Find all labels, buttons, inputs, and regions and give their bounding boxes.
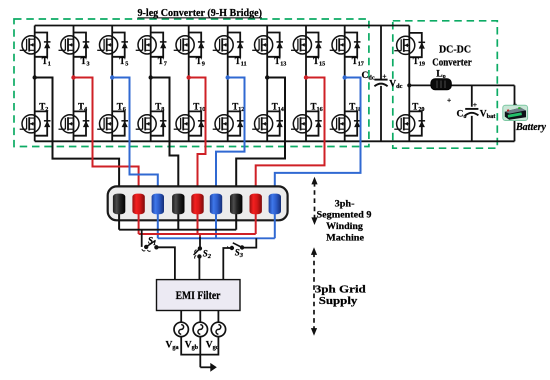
- svg-text:Vbat: Vbat: [480, 110, 496, 121]
- svg-text:S2: S2: [203, 248, 211, 260]
- wire: phase output leg 3: [112, 78, 158, 198]
- transistor T11 (with freewheel diode): [213, 33, 247, 68]
- wire: leg 6 vertical: [227, 26, 229, 142]
- transistor T15 (with freewheel diode): [291, 33, 325, 68]
- wire: T19/T20 leg vertical: [408, 26, 410, 142]
- wire: buck output: [409, 84, 514, 86]
- battery icon: [503, 105, 528, 120]
- node: T19/T20 midpoint: [407, 83, 411, 87]
- transistor T17 (with freewheel diode): [330, 33, 364, 68]
- wire: blue phase bus: [158, 237, 275, 239]
- winding W6 (coil): [210, 194, 222, 215]
- svg-text:T8: T8: [155, 101, 164, 113]
- wire: phase output leg 5: [189, 78, 206, 198]
- wire: winding 8 bottom lead: [255, 212, 257, 234]
- wire: leg 7 vertical: [266, 26, 268, 142]
- svg-text:9-leg Converter (9-H Bridge): 9-leg Converter (9-H Bridge): [138, 7, 263, 19]
- node: phase junction leg 9: [343, 75, 347, 79]
- wire: S3 feed: [242, 238, 256, 247]
- wire: S2 feed: [199, 234, 201, 237]
- wire: winding 1 bottom lead: [118, 212, 120, 229]
- wire: leg 5 vertical: [188, 26, 190, 142]
- transistor T6 (with freewheel diode): [97, 101, 128, 135]
- svg-text:+: +: [382, 71, 386, 80]
- wire: DC- bottom rail: [35, 140, 515, 142]
- wire: S2 to EMI: [198, 257, 200, 280]
- wire: winding 6 bottom lead: [215, 212, 217, 238]
- node: phase junction leg 1: [33, 75, 37, 79]
- svg-text:Supply: Supply: [319, 296, 358, 307]
- svg-text:Cdc: Cdc: [362, 71, 375, 82]
- transistor T7 (with freewheel diode): [136, 33, 167, 68]
- svg-text:Battery: Battery: [515, 122, 547, 133]
- svg-text:Vga: Vga: [166, 341, 179, 352]
- wire: winding 3 bottom lead: [157, 212, 159, 238]
- svg-text:Lo: Lo: [436, 70, 445, 81]
- wire: S1 to EMI: [156, 247, 175, 279]
- transistor T18 (with freewheel diode): [330, 101, 362, 135]
- svg-text:T10: T10: [193, 101, 205, 113]
- svg-text:DC-DC: DC-DC: [439, 45, 471, 56]
- switch S1: [142, 240, 158, 251]
- svg-text:Converter: Converter: [432, 58, 472, 69]
- wire: EMI to source Vga: [180, 311, 182, 323]
- switch S2: [194, 247, 202, 259]
- transistor T20 (with freewheel diode): [394, 101, 425, 135]
- inductor Lo: [431, 79, 451, 90]
- svg-text:T6: T6: [117, 101, 126, 113]
- wire: leg 8 vertical: [305, 26, 307, 142]
- wire: phase output leg 8: [256, 78, 325, 198]
- wire: phase output leg 9: [275, 78, 361, 198]
- transistor T9 (with freewheel diode): [174, 33, 205, 68]
- capacitor Co: [465, 109, 478, 116]
- node: phase junction leg 5: [187, 75, 191, 79]
- winding W4 (coil): [172, 194, 184, 215]
- transistor T19 (with freewheel diode): [394, 33, 425, 67]
- wire: EMI to source Vgc: [217, 311, 219, 323]
- node: phase junction leg 3: [110, 75, 114, 79]
- svg-text:Vgb: Vgb: [185, 341, 199, 352]
- AC source Vgb: [193, 322, 207, 336]
- svg-text:T20: T20: [412, 101, 424, 113]
- svg-text:+: +: [473, 100, 477, 109]
- AC source Vgc: [211, 322, 225, 336]
- svg-text:T5: T5: [119, 56, 128, 68]
- svg-text:Vdc: Vdc: [389, 80, 402, 91]
- wire: leg 9 vertical: [344, 26, 346, 142]
- wire: red phase bus: [139, 233, 256, 235]
- dashed arrow: winding machine span: [311, 177, 317, 225]
- EMI Filter block: [157, 280, 241, 311]
- winding W2 (coil): [132, 194, 144, 215]
- wire: DC+ top rail: [35, 25, 410, 27]
- svg-text:T9: T9: [196, 56, 205, 68]
- wire: source returns: [181, 337, 218, 368]
- label: 3ph Grid Supply: [315, 284, 366, 307]
- wire: DC-link branch: [380, 26, 382, 142]
- wire: phase output leg 1: [35, 78, 119, 198]
- node: phase junction leg 7: [265, 75, 269, 79]
- svg-text:EMI Filter: EMI Filter: [176, 290, 221, 302]
- svg-text:T14: T14: [272, 101, 284, 113]
- dashed arrow: grid supply span: [311, 247, 317, 335]
- capacitor Cdc: [374, 80, 387, 87]
- svg-text:T2: T2: [39, 101, 48, 113]
- svg-text:T3: T3: [81, 56, 90, 68]
- transistor T5 (with freewheel diode): [97, 33, 128, 68]
- wire: battery branch: [514, 85, 516, 141]
- transistor T13 (with freewheel diode): [252, 33, 286, 68]
- wire: winding 2 bottom lead: [138, 212, 140, 234]
- wire: winding 5 bottom lead: [197, 212, 199, 234]
- svg-text:Machine: Machine: [326, 233, 364, 243]
- winding W9 (coil): [269, 194, 281, 215]
- svg-text:T11: T11: [235, 56, 247, 68]
- 9-leg converter dashed enclosure: [14, 19, 369, 147]
- svg-text:T4: T4: [78, 101, 87, 113]
- transistor T3 (with freewheel diode): [59, 33, 90, 68]
- wire: phase output leg 7: [236, 78, 285, 198]
- winding W3 (coil): [152, 194, 164, 215]
- wire: leg 3 vertical: [111, 26, 113, 142]
- wire: phase output leg 6: [216, 78, 245, 198]
- wire: S3 to EMI: [223, 248, 232, 280]
- wire: leg 2 vertical: [73, 26, 75, 142]
- svg-text:+: +: [447, 96, 451, 105]
- wire: leg 1 vertical: [34, 26, 36, 142]
- node: phase junction leg 2: [71, 75, 75, 79]
- 3ph segmented 9-winding machine body: [108, 186, 288, 220]
- winding W1 (coil): [113, 194, 125, 215]
- wire: neutral tail with arrow: [200, 366, 211, 368]
- node: phase junction leg 6: [226, 75, 230, 79]
- label: 3ph-Segmented 9 Winding Machine: [317, 199, 372, 243]
- svg-text:T12: T12: [232, 101, 244, 113]
- wire: phase output leg 2: [74, 78, 139, 198]
- transistor T2 (with freewheel diode): [20, 101, 51, 135]
- wire: leg 4 vertical: [150, 26, 152, 142]
- wire: winding 4 bottom lead: [177, 212, 179, 229]
- AC source Vga: [174, 322, 188, 336]
- transistor T1 (with freewheel diode): [20, 33, 51, 68]
- switch S3: [227, 243, 244, 250]
- wire: winding 9 bottom lead: [274, 212, 276, 238]
- svg-text:T7: T7: [158, 56, 167, 68]
- winding W8 (coil): [250, 194, 262, 215]
- svg-text:3ph-: 3ph-: [335, 199, 355, 209]
- DC-DC converter dashed enclosure: [393, 21, 498, 148]
- transistor T8 (with freewheel diode): [136, 101, 167, 135]
- svg-text:T16: T16: [311, 101, 323, 113]
- wire: black phase bus: [119, 229, 236, 231]
- transistor T4 (with freewheel diode): [59, 101, 90, 135]
- svg-text:3ph Grid: 3ph Grid: [315, 284, 366, 295]
- transistor T14 (with freewheel diode): [252, 101, 284, 135]
- wire: S1 feed: [141, 230, 143, 247]
- wire: output cap branch: [471, 85, 473, 141]
- node: phase junction leg 4: [149, 75, 153, 79]
- svg-text:Winding: Winding: [326, 222, 363, 232]
- svg-text:Segmented 9: Segmented 9: [317, 211, 372, 221]
- svg-text:Vgc: Vgc: [206, 341, 219, 352]
- svg-text:T1: T1: [42, 56, 51, 68]
- svg-text:Co: Co: [457, 110, 467, 121]
- transistor T10 (with freewheel diode): [174, 101, 206, 135]
- winding W5 (coil): [191, 194, 203, 215]
- svg-text:S1: S1: [148, 236, 156, 248]
- node: phase junction leg 8: [304, 75, 308, 79]
- transistor T16 (with freewheel diode): [291, 101, 323, 135]
- wire: winding 7 bottom lead: [235, 212, 237, 229]
- transistor T12 (with freewheel diode): [213, 101, 245, 135]
- wire: phase output leg 4: [151, 78, 179, 198]
- winding W7 (coil): [230, 194, 242, 215]
- wire: EMI to source Vgb: [199, 311, 201, 323]
